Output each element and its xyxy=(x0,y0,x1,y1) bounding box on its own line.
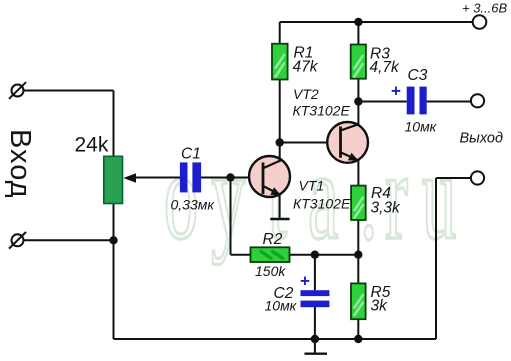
svg-text:0,33мк: 0,33мк xyxy=(171,197,216,213)
svg-text:R2: R2 xyxy=(263,231,283,248)
svg-text:Выход: Выход xyxy=(460,131,504,147)
svg-text:3,3k: 3,3k xyxy=(371,200,402,217)
svg-text:4,7k: 4,7k xyxy=(370,59,401,76)
svg-text:+: + xyxy=(300,272,310,291)
svg-text:24k: 24k xyxy=(75,134,109,157)
svg-text:10мк: 10мк xyxy=(405,119,438,135)
svg-text:+: + xyxy=(391,82,401,101)
svg-text:Вход: Вход xyxy=(4,129,36,199)
svg-text:КТ3102Е: КТ3102Е xyxy=(293,196,351,212)
svg-text:+ 3...6В: + 3...6В xyxy=(462,1,507,16)
svg-text:VT1: VT1 xyxy=(299,178,325,194)
svg-text:3k: 3k xyxy=(371,298,389,315)
svg-text:150k: 150k xyxy=(255,263,286,279)
svg-text:VT2: VT2 xyxy=(293,86,319,102)
svg-text:10мк: 10мк xyxy=(265,298,298,314)
svg-text:C3: C3 xyxy=(408,67,428,84)
svg-text:КТ3102Е: КТ3102Е xyxy=(293,103,351,119)
svg-text:C1: C1 xyxy=(181,146,201,163)
svg-text:47k: 47k xyxy=(293,59,319,76)
